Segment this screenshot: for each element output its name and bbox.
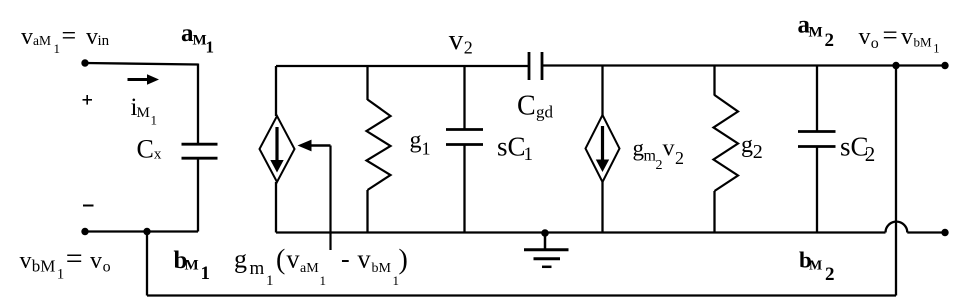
svg-text:v: v [859,24,871,50]
svg-text:1: 1 [54,41,61,56]
node b_M1 junction dot [143,228,150,235]
svg-text:bM: bM [914,35,933,50]
svg-text:v: v [663,136,675,162]
svg-text:M: M [137,105,150,121]
svg-text:m: m [250,258,265,279]
svg-text:v: v [90,248,102,274]
node v_bM1 terminal dot [81,228,88,235]
wire ground rail right part to output [907,231,945,233]
svg-text:1: 1 [201,263,211,284]
svg-text:v: v [449,24,464,56]
capacitor sC2 [798,132,836,147]
svg-text:aM: aM [33,33,51,48]
svg-text:-: - [341,245,350,274]
wire resistor g1 bottom lead [366,190,368,233]
wire top-left input rail [85,63,198,65]
wire current source 1 bottom lead [275,182,277,233]
svg-text:): ) [399,245,408,276]
svg-text:v: v [86,24,98,50]
svg-text:sC: sC [497,132,526,162]
svg-text:M: M [185,258,199,274]
svg-text:in: in [98,33,110,49]
svg-text:aM: aM [300,261,319,276]
svg-text:2: 2 [753,141,763,163]
node v_o junction dot [892,62,899,69]
wire ground rail left part [276,231,886,233]
label g_m1 (v_aM1 - v_bM1) [234,245,408,290]
label v_o = v_bM1 [859,20,940,56]
svg-text:v: v [287,245,300,274]
plus sign [83,95,93,105]
svg-text:gd: gd [536,103,554,122]
svg-text:v: v [21,24,33,50]
svg-text:1: 1 [57,267,65,283]
wire capacitor sC2 bottom lead [816,147,818,233]
wire capacitor sC1 bottom lead [463,145,465,233]
wire resistor g2 top lead [713,66,715,96]
node output bottom terminal dot [941,229,948,236]
wire crossover hop on ground rail [886,222,908,233]
svg-text:v: v [20,248,32,274]
control arrow into source 1 [298,140,331,250]
wire resistor g1 top lead [366,66,368,100]
svg-text:2: 2 [865,142,876,166]
svg-text:v: v [358,245,371,274]
svg-text:v: v [901,24,913,50]
svg-text:=: = [62,21,77,50]
resistor g2 [714,95,739,191]
wire C_x bottom lead [197,158,199,231]
svg-text:o: o [103,258,111,275]
svg-text:1: 1 [320,273,327,288]
svg-text:o: o [871,35,879,52]
svg-text:2: 2 [825,30,835,51]
wire feedback right riser [895,66,897,296]
resistor g1 [367,100,391,191]
wire output top rail [542,64,945,66]
svg-text:M: M [809,259,822,274]
ground [524,229,569,267]
wire v2 top rail [276,65,529,67]
svg-text:2: 2 [675,148,684,168]
wire capacitor sC2 top lead [816,66,818,132]
svg-text:M: M [809,25,823,41]
svg-text:2: 2 [656,158,663,173]
svg-text:1: 1 [422,139,431,159]
wire bottom-left rail b_M1 [85,230,198,232]
svg-text:bM: bM [372,261,392,276]
wire feedback bottom run [147,294,896,296]
current source G2 gm2*v2 (dependent, diamond) [586,115,620,182]
svg-text:=: = [66,242,83,275]
wire current source 1 top lead [275,66,277,116]
svg-text:1: 1 [266,273,274,289]
current source G1 (dependent, diamond) [260,116,295,182]
svg-text:1: 1 [206,38,215,57]
svg-text:1: 1 [151,113,158,128]
wire current source 2 bottom lead [601,182,603,233]
svg-text:C: C [517,91,536,122]
minus sign [83,205,94,207]
svg-text:g: g [234,245,247,274]
svg-text:2: 2 [464,37,473,57]
svg-text:1: 1 [933,42,939,56]
capacitor C_x [182,144,218,158]
svg-text:g: g [410,128,422,154]
capacitor C_gd (series) [529,52,542,80]
svg-text:2: 2 [825,264,835,285]
current arrow i_M1 [128,74,160,85]
svg-text:bM: bM [32,256,56,275]
svg-text:(: ( [276,245,285,276]
wire capacitor sC1 top lead [463,66,465,130]
wire C_x top lead [197,64,199,145]
wire feedback drop from b_M1 [146,232,148,296]
node v_aM1 input terminal dot [81,59,88,66]
svg-text:1: 1 [524,144,534,165]
wire resistor g2 bottom lead [713,191,715,233]
node output top terminal dot [941,62,948,69]
capacitor sC1 [446,130,483,145]
wire current source 2 top lead [601,66,603,116]
svg-text:g: g [741,132,753,158]
label g_m2 v_2 [633,136,685,174]
svg-text:=: = [883,20,898,50]
